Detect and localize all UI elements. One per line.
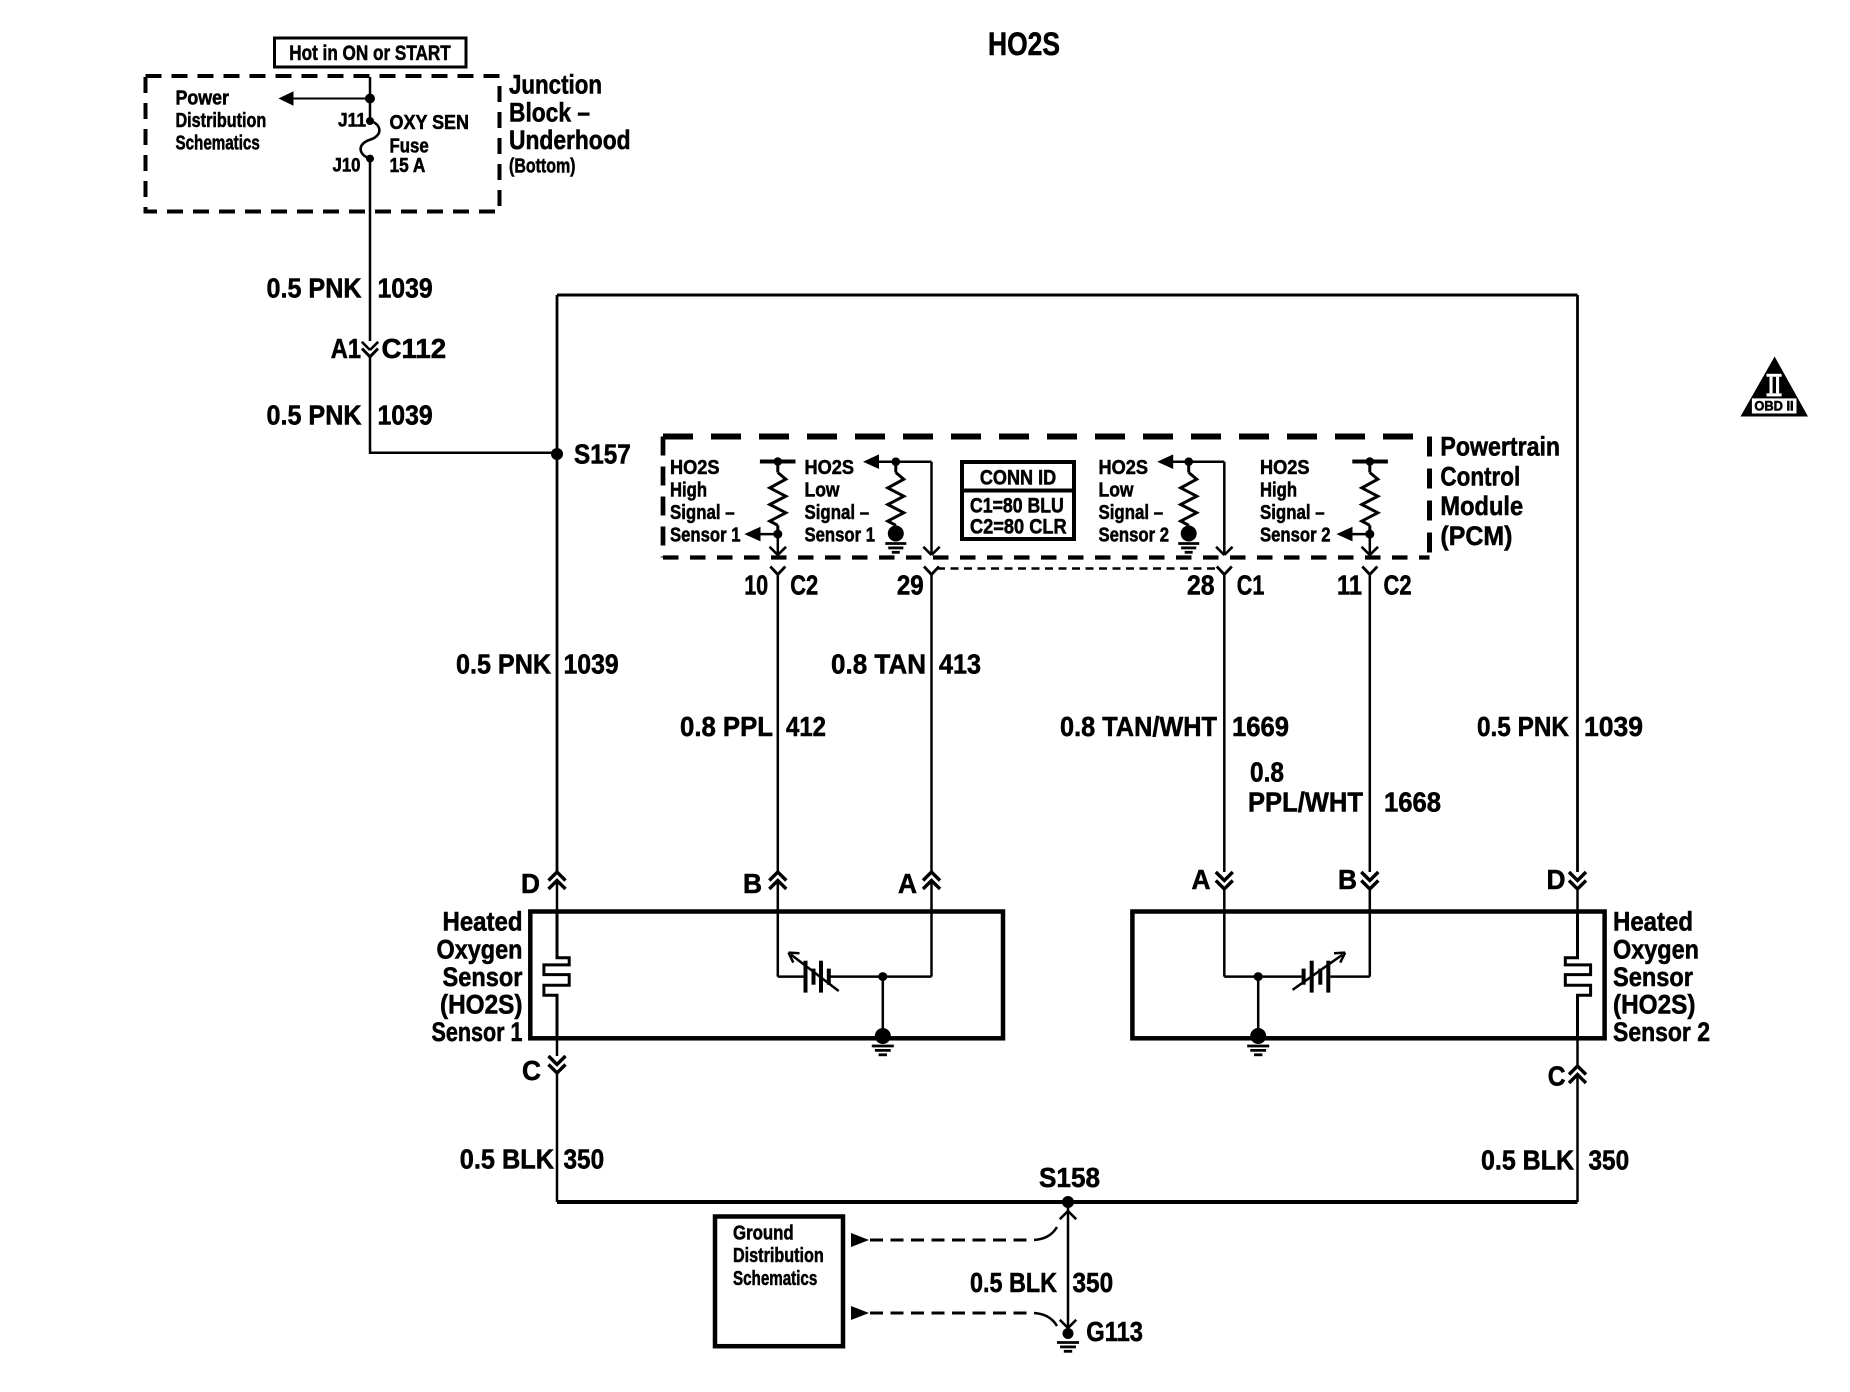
svg-text:28: 28 (1187, 570, 1215, 601)
svg-text:HO2S: HO2S (1099, 457, 1149, 479)
svg-text:Signal –: Signal – (1260, 502, 1325, 524)
svg-text:HO2S: HO2S (988, 26, 1060, 62)
svg-text:Hot in ON or START: Hot in ON or START (289, 42, 451, 65)
svg-text:Signal –: Signal – (670, 502, 735, 524)
svg-text:413: 413 (939, 649, 981, 680)
svg-text:Sensor 2: Sensor 2 (1099, 525, 1170, 547)
svg-text:High: High (1260, 480, 1297, 502)
svg-text:1039: 1039 (1584, 711, 1643, 742)
svg-text:Heated: Heated (1613, 907, 1693, 937)
svg-text:1039: 1039 (564, 649, 619, 680)
svg-text:Powertrain: Powertrain (1440, 432, 1560, 462)
svg-text:Oxygen: Oxygen (437, 934, 523, 964)
svg-text:B: B (743, 868, 762, 899)
svg-text:1669: 1669 (1232, 711, 1289, 742)
svg-text:J10: J10 (333, 156, 361, 177)
svg-text:Distribution: Distribution (176, 110, 267, 132)
svg-text:1668: 1668 (1384, 787, 1441, 818)
svg-text:0.5 PNK: 0.5 PNK (456, 649, 551, 680)
svg-text:C1=80 BLU: C1=80 BLU (970, 495, 1064, 518)
svg-text:Low: Low (805, 480, 840, 502)
svg-text:C: C (522, 1055, 541, 1086)
svg-text:Junction: Junction (509, 70, 602, 100)
svg-text:(PCM): (PCM) (1440, 521, 1512, 551)
svg-text:1039: 1039 (378, 273, 433, 304)
svg-text:J11: J11 (338, 110, 366, 131)
svg-text:350: 350 (564, 1144, 605, 1175)
svg-text:Low: Low (1099, 480, 1134, 502)
svg-text:C112: C112 (382, 333, 447, 364)
svg-text:S158: S158 (1039, 1162, 1100, 1193)
svg-text:Sensor 1: Sensor 1 (670, 525, 741, 547)
svg-text:D: D (521, 868, 540, 899)
svg-text:A: A (898, 868, 917, 899)
svg-text:1039: 1039 (378, 400, 433, 431)
svg-text:C2: C2 (1384, 570, 1412, 601)
svg-text:0.5 PNK: 0.5 PNK (1477, 711, 1569, 742)
svg-text:0.8 TAN: 0.8 TAN (831, 649, 926, 680)
svg-text:Module: Module (1440, 491, 1523, 521)
svg-text:0.5 BLK: 0.5 BLK (460, 1144, 554, 1175)
svg-text:(Bottom): (Bottom) (509, 155, 576, 177)
svg-text:412: 412 (786, 711, 826, 742)
svg-text:Block –: Block – (509, 97, 590, 127)
svg-text:Oxygen: Oxygen (1613, 934, 1699, 964)
svg-text:Control: Control (1440, 461, 1520, 491)
svg-text:HO2S: HO2S (670, 457, 720, 479)
svg-text:A: A (1192, 864, 1211, 895)
svg-text:C2=80 CLR: C2=80 CLR (970, 516, 1067, 539)
svg-text:C2: C2 (790, 570, 818, 601)
svg-text:OXY SEN: OXY SEN (390, 112, 470, 134)
svg-text:B: B (1338, 864, 1357, 895)
svg-text:10: 10 (744, 570, 768, 601)
svg-text:Sensor: Sensor (443, 962, 523, 992)
svg-text:Distribution: Distribution (733, 1245, 824, 1267)
svg-text:0.8 PPL: 0.8 PPL (680, 711, 773, 742)
svg-text:Ground: Ground (733, 1223, 794, 1245)
svg-text:Power: Power (176, 88, 230, 110)
svg-text:PPL/WHT: PPL/WHT (1248, 787, 1363, 818)
svg-text:S157: S157 (574, 439, 631, 470)
svg-text:Sensor 1: Sensor 1 (805, 525, 876, 547)
svg-text:HO2S: HO2S (805, 457, 855, 479)
svg-text:Signal –: Signal – (805, 502, 870, 524)
svg-text:C: C (1548, 1061, 1566, 1092)
svg-text:Underhood: Underhood (509, 125, 631, 155)
svg-text:Schematics: Schematics (176, 133, 260, 155)
svg-text:G113: G113 (1086, 1316, 1143, 1347)
svg-text:C1: C1 (1237, 570, 1265, 601)
svg-text:Sensor 2: Sensor 2 (1260, 525, 1331, 547)
svg-text:OBD II: OBD II (1754, 398, 1793, 413)
svg-text:11: 11 (1337, 570, 1362, 601)
svg-text:0.5 PNK: 0.5 PNK (267, 400, 362, 431)
svg-text:HO2S: HO2S (1260, 457, 1310, 479)
svg-text:High: High (670, 480, 707, 502)
svg-text:0.8: 0.8 (1250, 757, 1284, 788)
svg-text:350: 350 (1589, 1145, 1630, 1176)
svg-text:(HO2S): (HO2S) (440, 990, 523, 1020)
svg-text:Sensor 1: Sensor 1 (432, 1017, 523, 1047)
svg-text:Sensor 2: Sensor 2 (1613, 1017, 1710, 1047)
svg-text:A1: A1 (331, 333, 361, 364)
svg-text:D: D (1547, 864, 1566, 895)
svg-text:Sensor: Sensor (1613, 962, 1693, 992)
svg-text:(HO2S): (HO2S) (1613, 990, 1696, 1020)
svg-text:0.5 BLK: 0.5 BLK (1481, 1145, 1574, 1176)
svg-text:29: 29 (897, 570, 924, 601)
svg-text:Heated: Heated (443, 907, 523, 937)
svg-text:0.5 BLK: 0.5 BLK (970, 1267, 1057, 1298)
svg-text:CONN ID: CONN ID (980, 466, 1056, 489)
svg-text:0.5 PNK: 0.5 PNK (267, 273, 362, 304)
svg-text:350: 350 (1073, 1267, 1114, 1298)
svg-text:Schematics: Schematics (733, 1268, 817, 1290)
svg-text:Signal –: Signal – (1099, 502, 1164, 524)
svg-text:0.8 TAN/WHT: 0.8 TAN/WHT (1060, 711, 1217, 742)
svg-text:15 A: 15 A (390, 155, 426, 177)
